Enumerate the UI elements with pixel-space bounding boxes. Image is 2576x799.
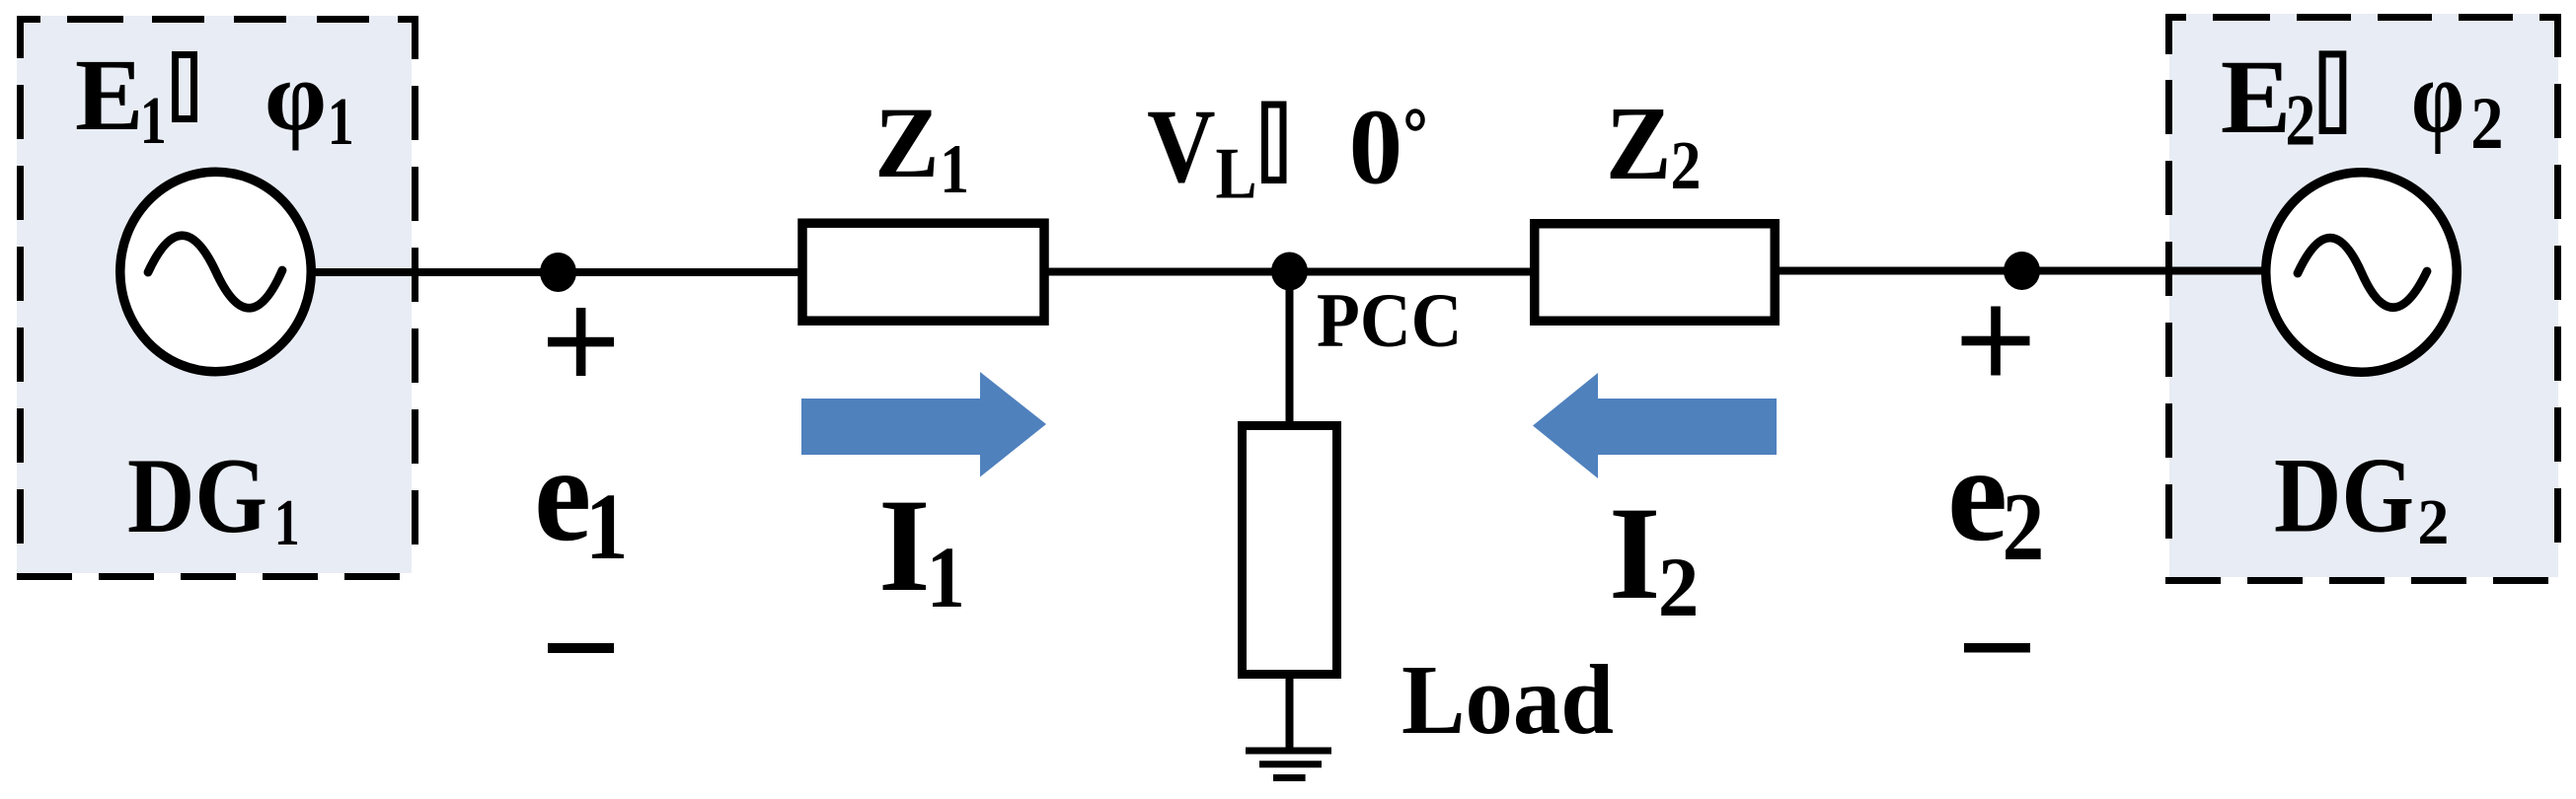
DG1 dashed border right	[412, 16, 418, 580]
DG2 dashed border bottom	[2165, 577, 2561, 584]
ground line 1	[1246, 748, 1331, 755]
DG1 dashed border top	[17, 16, 418, 23]
missing glyph box after E1	[176, 55, 194, 119]
svg-text:e: e	[534, 418, 591, 569]
svg-text:1: 1	[274, 486, 300, 559]
DG1 dashed border bottom	[17, 573, 418, 580]
svg-text:Z: Z	[1606, 85, 1672, 202]
svg-text:DG: DG	[127, 436, 267, 555]
node dot PCC	[1271, 253, 1308, 291]
svg-text:φ: φ	[2411, 39, 2464, 155]
load box	[1243, 426, 1337, 675]
DG1 dashed border left	[17, 16, 24, 580]
svg-text:1: 1	[140, 83, 167, 158]
svg-text:E: E	[75, 38, 143, 152]
AC source circle E1	[120, 172, 312, 372]
svg-text:0: 0	[1349, 88, 1403, 207]
minus sign left	[548, 643, 614, 653]
ground line 2	[1259, 761, 1322, 767]
svg-text:1: 1	[585, 473, 628, 579]
missing glyph box after E2	[2322, 54, 2343, 131]
DG1 dashed box fill	[17, 16, 412, 573]
svg-text:φ: φ	[265, 40, 327, 151]
svg-text:2: 2	[2003, 473, 2045, 581]
degree ring	[1408, 111, 1423, 129]
svg-text:2: 2	[2285, 81, 2315, 162]
current arrow I1	[801, 372, 1046, 477]
wire from Z2 to source E2	[1778, 267, 2267, 275]
impedance Z2 box	[1535, 224, 1776, 322]
sine wave inside source E2	[2298, 238, 2427, 308]
impedance Z1 box	[802, 223, 1044, 321]
svg-text:PCC: PCC	[1317, 277, 1463, 363]
svg-text:I: I	[878, 472, 931, 619]
plus sign left horizontal	[548, 337, 614, 347]
sine wave inside source E1	[148, 236, 282, 309]
missing glyph box after VL	[1265, 105, 1284, 181]
minus sign right	[1964, 643, 2030, 653]
svg-text:1: 1	[927, 530, 965, 626]
svg-text:Load: Load	[1402, 644, 1614, 755]
plus sign right vertical	[1991, 307, 2001, 376]
node dot e2	[2004, 252, 2040, 290]
svg-text:1: 1	[940, 131, 969, 208]
svg-text:2: 2	[2470, 83, 2503, 165]
svg-text:V: V	[1147, 88, 1216, 205]
DG2 dashed border right	[2554, 14, 2561, 584]
plus sign left vertical	[576, 308, 586, 376]
svg-text:2: 2	[1658, 540, 1700, 634]
ground line 3	[1273, 774, 1306, 781]
node dot e1	[540, 253, 576, 292]
svg-text:e: e	[1947, 418, 2008, 569]
current arrow I2	[1533, 373, 1777, 478]
svg-text:2: 2	[1671, 128, 1702, 204]
svg-text:I: I	[1609, 480, 1661, 627]
plus sign right horizontal	[1962, 336, 2030, 346]
svg-text:Z: Z	[874, 87, 940, 199]
wire load to ground	[1286, 677, 1294, 751]
svg-text:E: E	[2221, 39, 2291, 156]
wire from source E1 to Z1	[312, 268, 801, 276]
svg-text:DG: DG	[2274, 436, 2414, 555]
svg-text:2: 2	[2417, 486, 2449, 558]
AC source circle E2	[2266, 173, 2458, 373]
wire PCC to load	[1286, 271, 1294, 424]
wire from Z1 to Z2 through PCC	[1046, 268, 1536, 276]
DG2 dashed border top	[2165, 14, 2561, 21]
svg-text:L: L	[1216, 134, 1257, 215]
DG2 dashed border left	[2165, 14, 2172, 584]
svg-text:1: 1	[328, 84, 354, 159]
DG2 dashed box fill	[2169, 14, 2558, 577]
